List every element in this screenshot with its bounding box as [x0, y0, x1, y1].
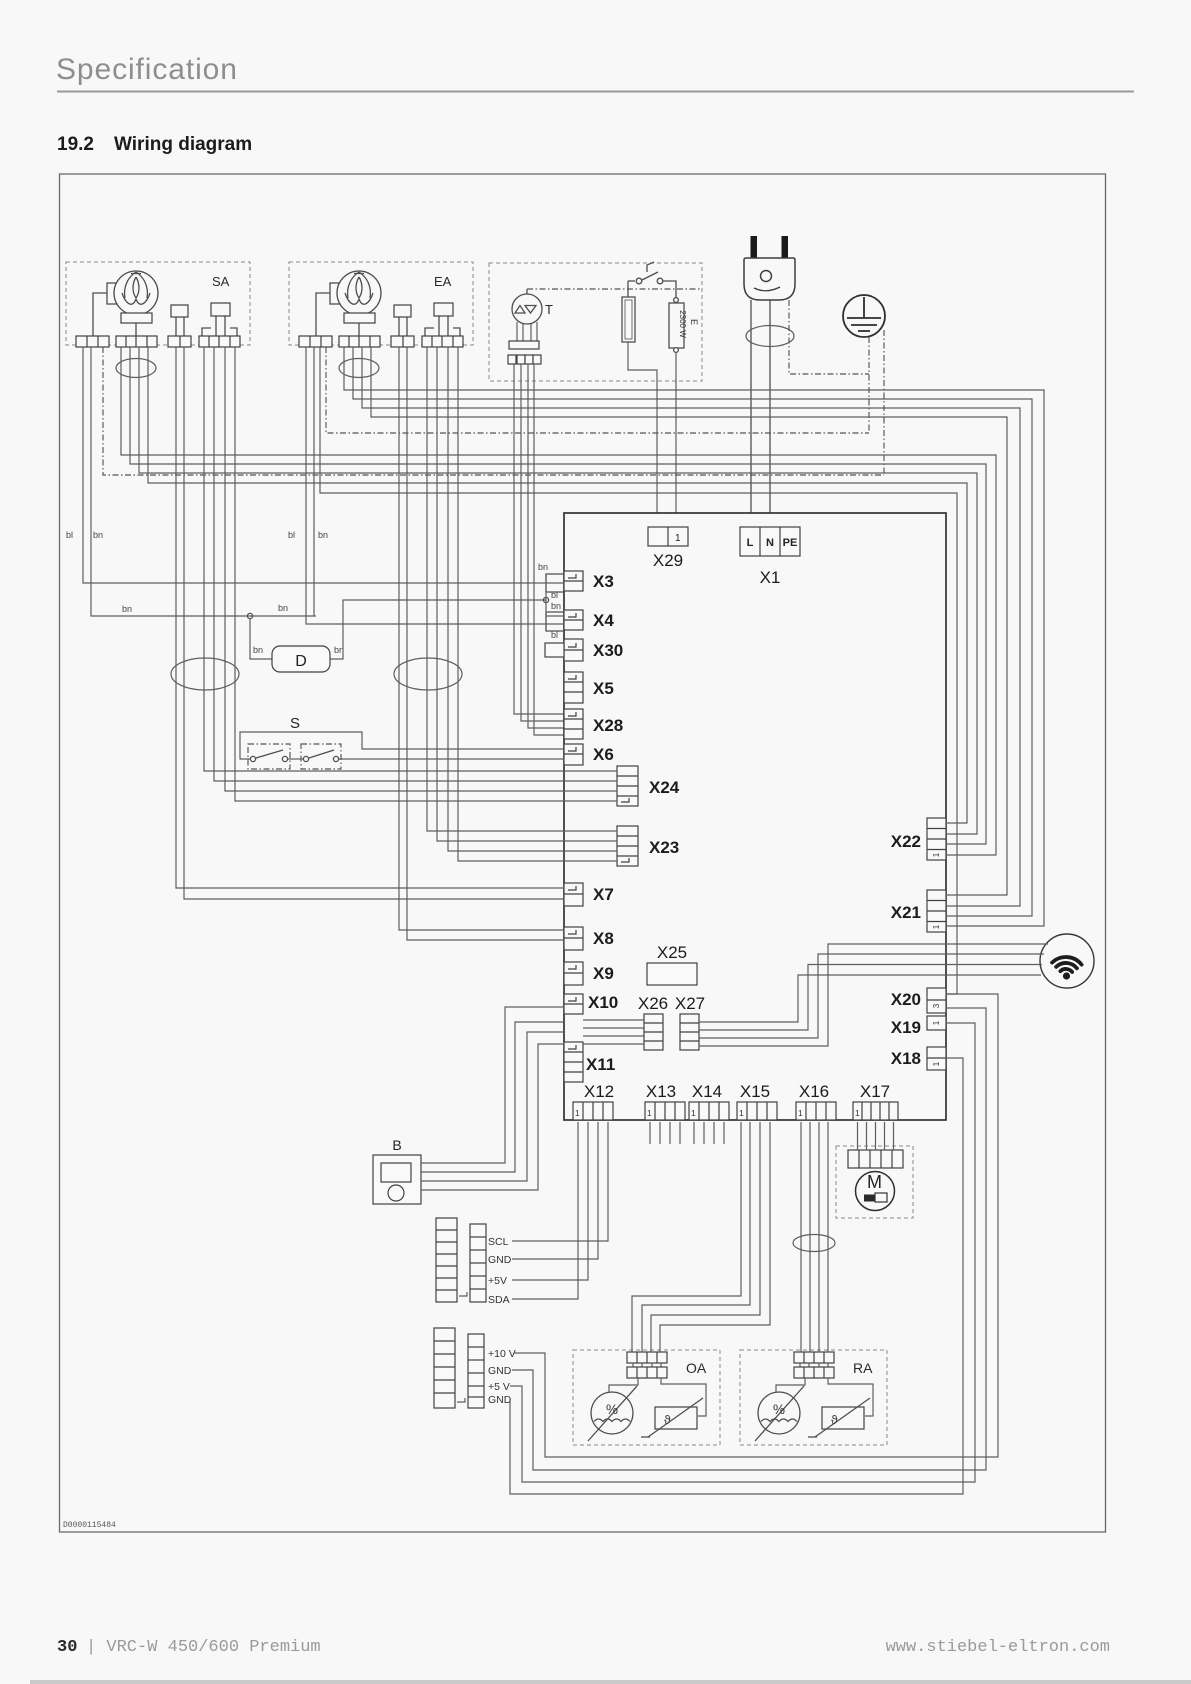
svg-text:X4: X4 — [593, 611, 614, 630]
svg-text:X26: X26 — [638, 994, 668, 1013]
connector X17 — [853, 1102, 898, 1120]
connector X8 — [564, 927, 583, 950]
wire EA aux3 to X23 pin3 — [448, 347, 617, 851]
motor terminal marks — [864, 1195, 875, 1202]
wire fuse to X29 pin1 — [628, 342, 657, 527]
M dashed enclosure — [836, 1146, 913, 1218]
svg-text:SDA: SDA — [488, 1294, 510, 1306]
svg-text:X9: X9 — [593, 964, 614, 983]
svg-text:1: 1 — [691, 1108, 696, 1118]
wire RA to X16 pin1 — [800, 1122, 802, 1352]
svg-text:bn: bn — [551, 601, 561, 611]
svg-text:+5 V: +5 V — [488, 1381, 510, 1393]
switch S box 2 — [301, 744, 341, 769]
svg-text:X29: X29 — [653, 551, 683, 570]
svg-text:bn: bn — [538, 562, 548, 572]
OA dashed enclosure — [573, 1350, 720, 1445]
wire junction to X4 pin — [546, 600, 564, 616]
wire EA fan pin3 to X21 pin2 — [362, 347, 1020, 906]
svg-text:X11: X11 — [586, 1055, 615, 1074]
dash-dot earth wire 2 — [883, 330, 885, 475]
OA connector row 1 — [627, 1352, 667, 1363]
switch S2 contacts — [303, 750, 338, 762]
wire SDA to X12 pin1 — [512, 1122, 578, 1299]
wire thermostat to X28 pin2 — [521, 364, 564, 721]
dash-dot PE wire plug to earth — [789, 300, 869, 374]
wire RA to X16 pin3 — [818, 1122, 820, 1352]
svg-text:3: 3 — [932, 1003, 941, 1008]
thermostat terminal bar — [509, 341, 539, 349]
svg-text:X1: X1 — [760, 568, 781, 587]
RA cable marker ellipse — [793, 1235, 835, 1252]
svg-text:bn: bn — [93, 530, 103, 540]
component X25 — [647, 963, 697, 985]
svg-text:%: % — [773, 1402, 785, 1417]
svg-text:1: 1 — [932, 1061, 941, 1066]
svg-text:bl: bl — [551, 630, 558, 640]
connector X14 — [689, 1102, 729, 1120]
connector X7 — [564, 883, 583, 906]
X4 mating shell — [546, 612, 564, 631]
plug eye — [761, 271, 772, 282]
EA connector strip 4 — [422, 336, 463, 347]
fan motor SA — [93, 271, 158, 336]
wire OA connector to humidity sensor — [609, 1378, 638, 1393]
wire SCL to X12 pin4 — [512, 1122, 608, 1241]
X30 mating plug — [545, 643, 564, 657]
damper component D — [272, 646, 330, 672]
svg-text:+5V: +5V — [488, 1275, 507, 1287]
wire OA to X15 pin1 — [632, 1122, 741, 1352]
safety thermostat T — [512, 289, 542, 324]
connector X1 — [740, 527, 800, 556]
mains cable marker ellipse — [746, 326, 794, 347]
connector X30 — [564, 639, 583, 661]
SA connector strip 1 — [76, 336, 109, 347]
connector X12 — [573, 1102, 613, 1120]
svg-text:PE: PE — [783, 537, 798, 549]
svg-text:1: 1 — [575, 1108, 580, 1118]
svg-text:X18: X18 — [891, 1049, 921, 1068]
switch S box 1 — [248, 744, 290, 769]
wire SA aux3 to X24 pin3 — [225, 347, 617, 791]
RA connector row 1 — [794, 1352, 834, 1363]
connector X22 — [927, 818, 946, 860]
svg-text:X22: X22 — [891, 832, 921, 851]
svg-text:1: 1 — [798, 1108, 803, 1118]
EA sensor plug above strip 3 — [394, 305, 411, 336]
OA connector row 2 — [627, 1367, 667, 1378]
diagram outer frame — [60, 174, 1106, 1532]
svg-text:T: T — [545, 302, 553, 317]
svg-text:E: E — [689, 319, 699, 325]
dash-dot screen wire from T — [527, 288, 700, 290]
connector X21 — [927, 890, 946, 932]
wire B to X10 — [421, 1007, 564, 1163]
wire GND loop to X18 — [510, 1058, 963, 1494]
wire EA fan pin1 to X21 pin4 — [344, 347, 1044, 926]
wire junction to damper D — [250, 618, 272, 659]
svg-text:X8: X8 — [593, 929, 614, 948]
OA temperature sensor — [641, 1398, 703, 1437]
switch F — [628, 262, 676, 298]
fan motor EA — [316, 271, 381, 336]
svg-text:OA: OA — [686, 1360, 707, 1376]
mains plug — [744, 236, 795, 300]
bus connector block (SCL) right column — [470, 1224, 486, 1302]
svg-text:30: 30 — [57, 1638, 77, 1657]
svg-text:X7: X7 — [593, 885, 614, 904]
analog connector block (+10V) left column — [434, 1328, 455, 1408]
RA dashed enclosure — [740, 1350, 887, 1445]
wire EA aux2 to X23 pin2 — [437, 347, 617, 841]
svg-text:www.stiebel-eltron.com: www.stiebel-eltron.com — [886, 1638, 1110, 1657]
connector X16 — [796, 1102, 836, 1120]
svg-text:%: % — [606, 1402, 618, 1417]
protective earth symbol — [843, 295, 885, 337]
OA humidity sensor — [588, 1386, 637, 1441]
heating element resistor 2300 W — [669, 298, 684, 353]
wire D to X3/X4 junction — [330, 600, 546, 659]
wire X17 pin1 to M — [857, 1122, 859, 1150]
wire RA to X16 pin4 — [827, 1122, 829, 1352]
outside-air sensor group OA — [573, 1350, 720, 1445]
X3 mating shell — [546, 574, 564, 592]
thermostat lead wires — [517, 322, 537, 341]
svg-text:bn: bn — [278, 603, 288, 613]
svg-text:M: M — [867, 1172, 882, 1192]
wire SA sensor to X7 pin2 — [184, 347, 564, 899]
wire S loop to X6 pin1 — [240, 732, 564, 759]
junction node at D branch — [247, 613, 252, 618]
wire SA bl to X3 — [83, 347, 564, 583]
svg-text:bl: bl — [66, 530, 73, 540]
wire SA aux2 to X24 pin2 — [214, 347, 617, 781]
svg-text:1: 1 — [855, 1108, 860, 1118]
SA cable marker ellipse — [116, 359, 156, 378]
bus connector block (SCL) left column — [436, 1218, 457, 1302]
junction node at X4 — [543, 597, 548, 602]
svg-text:SA: SA — [212, 274, 230, 289]
thermostat crimp connectors — [508, 355, 541, 364]
svg-text:X21: X21 — [891, 903, 921, 922]
connector X23 — [617, 826, 638, 866]
connector X15 — [737, 1102, 777, 1120]
svg-text:1: 1 — [647, 1108, 652, 1118]
svg-text:X30: X30 — [593, 641, 623, 660]
svg-text:S: S — [290, 715, 300, 732]
wire B to X11 pin2 — [421, 1032, 564, 1181]
svg-text:1: 1 — [932, 1020, 941, 1025]
M connector strip — [848, 1150, 903, 1168]
wire thermostat to X28 pin3 — [528, 364, 564, 728]
wire OA to X15 pin3 — [651, 1122, 760, 1352]
wire OA to X15 pin4 — [660, 1122, 770, 1352]
connector X20 — [927, 988, 946, 1013]
X13 pin stubs — [650, 1122, 680, 1144]
svg-text:N: N — [766, 537, 774, 549]
room-air sensor group RA — [740, 1350, 887, 1445]
svg-text:X12: X12 — [584, 1082, 614, 1101]
wire EA aux to X20 — [320, 347, 957, 994]
svg-text:X3: X3 — [593, 572, 614, 591]
svg-text:EA: EA — [434, 274, 452, 289]
OA connector link pins — [633, 1363, 661, 1367]
analog connector block (+10V) right column — [468, 1334, 484, 1408]
connector X10 — [564, 994, 583, 1014]
EA connector strip 2 (fan) — [339, 336, 380, 347]
svg-text:X27: X27 — [675, 994, 705, 1013]
EA dashed enclosure — [289, 262, 473, 345]
EA connector strip 3 — [391, 336, 414, 347]
svg-text:X16: X16 — [799, 1082, 829, 1101]
EA sensor cable ellipse — [394, 658, 462, 690]
connector X13 — [645, 1102, 685, 1120]
svg-text:D: D — [295, 653, 307, 670]
connector X18 — [927, 1047, 946, 1070]
wire OA connector to temperature sensor — [661, 1378, 706, 1416]
SA sensor cable ellipse — [171, 658, 239, 690]
extract-air fan group EA — [289, 262, 473, 378]
wire SA aux1 to X24 pin1 — [204, 347, 617, 771]
svg-text:+10 V: +10 V — [488, 1348, 516, 1360]
main controller board — [564, 513, 946, 1120]
wire EA aux4 to X23 pin4 — [458, 347, 617, 861]
svg-text:X23: X23 — [649, 838, 679, 857]
svg-text:X28: X28 — [593, 716, 623, 735]
svg-text:X17: X17 — [860, 1082, 890, 1101]
svg-text:X25: X25 — [657, 943, 687, 962]
svg-text:RA: RA — [853, 1360, 873, 1376]
control panel B — [373, 1155, 421, 1204]
wire SA sensor to X7 pin1 — [176, 347, 564, 888]
RA temperature sensor — [808, 1398, 870, 1437]
connector X9 — [564, 962, 583, 985]
wire EA aux1 to X23 pin1 — [427, 347, 617, 831]
plug pin N — [782, 236, 789, 260]
plug pin L — [751, 236, 758, 260]
wire B to X11 pin1 — [421, 1022, 564, 1172]
svg-text:X6: X6 — [593, 745, 614, 764]
svg-text:X24: X24 — [649, 778, 680, 797]
wire SA fan pin1 to X22 pin4 — [121, 347, 996, 855]
title rule — [57, 91, 1134, 93]
svg-text:GND: GND — [488, 1254, 512, 1266]
connector X24 — [617, 766, 638, 806]
SA connector strip 2 (fan) — [116, 336, 157, 347]
EA cable marker ellipse — [339, 359, 379, 378]
svg-text:1: 1 — [675, 533, 681, 544]
pin-1 marker — [457, 1398, 465, 1402]
connector X11 — [564, 1042, 583, 1082]
wire SA fan pin2 to X22 pin3 — [130, 347, 986, 844]
dash-dot earth bus SA — [103, 347, 884, 475]
svg-text:1: 1 — [932, 852, 941, 857]
switch S1 contacts — [250, 750, 287, 762]
svg-text:X10: X10 — [588, 993, 618, 1012]
svg-text:B: B — [392, 1137, 401, 1153]
wire RA to X16 pin2 — [809, 1122, 811, 1352]
wire GND to X12 pin3 — [512, 1122, 598, 1259]
svg-text:1: 1 — [932, 924, 941, 929]
wire +5V loop to X19 — [510, 1023, 975, 1482]
svg-text:X19: X19 — [891, 1018, 921, 1037]
svg-text:X15: X15 — [740, 1082, 770, 1101]
svg-text:1: 1 — [739, 1108, 744, 1118]
svg-text:2300 W: 2300 W — [678, 310, 687, 338]
X14 pin stubs — [694, 1122, 724, 1144]
svg-text:D0000115484: D0000115484 — [63, 1521, 116, 1530]
connector X29 — [648, 527, 688, 546]
wire thermostat to X28 pin1 — [514, 364, 564, 714]
fuse F1 — [622, 297, 635, 342]
pin-1 marker — [459, 1292, 467, 1296]
svg-text:L: L — [747, 537, 754, 549]
dash-dot earth wire 1 — [868, 337, 870, 433]
wire RA connector to humidity sensor — [776, 1378, 805, 1393]
svg-text:X14: X14 — [692, 1082, 722, 1101]
connector X3 — [564, 571, 583, 591]
RA humidity sensor — [755, 1386, 804, 1441]
wires X27 to wifi module — [699, 944, 1048, 1046]
connector X28 — [564, 709, 583, 739]
fan motor group M — [836, 1146, 913, 1218]
connector X27 — [680, 1014, 699, 1050]
connector X6 — [564, 744, 583, 765]
SA sensor plug above strip 4 — [202, 303, 237, 336]
RA connector link pins — [800, 1363, 828, 1367]
wire thermostat to X28 pin4 — [534, 364, 564, 735]
svg-text:Specification: Specification — [56, 53, 238, 86]
dash-dot earth bus EA — [326, 347, 869, 433]
svg-text:19.2: 19.2 — [57, 134, 94, 155]
connector X19 — [927, 1016, 946, 1030]
wire EA fan pin2 to X21 pin3 — [353, 347, 1032, 916]
heater/thermostat dashed enclosure — [489, 263, 702, 381]
wire EA fan pin4 to X21 pin1 — [371, 347, 1007, 895]
SA dashed enclosure — [66, 262, 250, 345]
EA sensor plug above strip 4 — [425, 303, 460, 336]
svg-text:bl: bl — [551, 590, 558, 600]
wire plug N to X1 — [769, 300, 771, 527]
motor M symbol — [856, 1172, 895, 1211]
svg-text:Wiring diagram: Wiring diagram — [114, 134, 252, 155]
plug smile — [754, 287, 780, 291]
wifi antenna symbol — [1040, 934, 1094, 988]
scan edge band — [30, 1680, 1191, 1684]
wire resistor to X29 pin2 — [675, 352, 677, 527]
svg-text:GND: GND — [488, 1365, 512, 1377]
svg-text:bn: bn — [122, 604, 132, 614]
wires X26 to board edge — [583, 1020, 644, 1044]
wire +10V loop to X20 — [514, 994, 998, 1457]
wire SA bn to D net — [91, 347, 316, 616]
wire S to X6 pin2 — [339, 758, 564, 760]
SA connector strip 4 — [199, 336, 240, 347]
wire SA fan pin3 to X22 pin2 — [139, 347, 977, 834]
wire GND loop to X20 — [512, 1008, 986, 1470]
wire S link — [288, 758, 303, 760]
RA connector row 2 — [794, 1367, 834, 1378]
svg-text:bn: bn — [318, 530, 328, 540]
wire SA aux4 to X24 pin4 — [235, 347, 617, 801]
connector X5 — [564, 672, 583, 703]
svg-text:SCL: SCL — [488, 1236, 509, 1248]
SA sensor plug above strip 3 — [171, 305, 188, 336]
svg-text:bl: bl — [288, 530, 295, 540]
svg-text:bn: bn — [253, 645, 263, 655]
wire EA bl to X4 — [306, 347, 564, 624]
wire plug L to X1 — [750, 300, 752, 527]
svg-text:X5: X5 — [593, 679, 614, 698]
svg-text:ϑ: ϑ — [664, 1413, 671, 1427]
svg-text:X20: X20 — [891, 990, 921, 1009]
wire RA connector to temperature sensor — [828, 1378, 873, 1416]
connector X4 — [564, 610, 583, 630]
wire EA sensor to X8 pin1 — [399, 347, 564, 930]
wire OA to X15 pin2 — [642, 1122, 750, 1352]
supply-air fan group SA — [66, 262, 250, 378]
wire EA bn drop — [313, 347, 315, 616]
wire SA fan pin4 to X22 pin1 — [148, 347, 967, 823]
connector X26 — [644, 1014, 663, 1050]
svg-text:X13: X13 — [646, 1082, 676, 1101]
wire junction into X3 shell — [545, 592, 547, 600]
wire B to X11 pin3 — [421, 1044, 564, 1190]
wire X17 pin4 to M — [884, 1122, 886, 1150]
wire EA sensor to X8 pin2 — [407, 347, 564, 940]
svg-text:ϑ: ϑ — [831, 1413, 838, 1427]
wire +5V to X12 pin2 — [512, 1122, 588, 1280]
EA connector strip 1 — [299, 336, 332, 347]
SA connector strip 3 — [168, 336, 191, 347]
wire X17 pin2 to M — [866, 1122, 868, 1150]
svg-text:GND: GND — [488, 1394, 512, 1406]
wire X17 pin5 to M — [893, 1122, 895, 1150]
svg-text:| VRC-W 450/600 Premium: | VRC-W 450/600 Premium — [86, 1638, 321, 1657]
wire X17 pin3 to M — [875, 1122, 877, 1150]
plug body — [744, 258, 795, 300]
